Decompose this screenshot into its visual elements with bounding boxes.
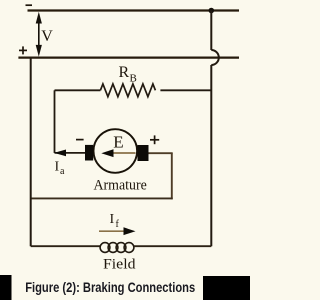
wire hop over positive rail [211, 50, 219, 65]
current arrow I_a head [54, 150, 66, 157]
armature circle [94, 129, 138, 173]
label plus (supply positive) [19, 46, 27, 54]
emf arrow head [101, 149, 113, 157]
svg-text:Armature: Armature [94, 177, 148, 193]
current arrow I_f head [124, 227, 136, 235]
wire bottom left segment to field [31, 245, 101, 247]
label minus (supply negative) [26, 4, 33, 6]
junction dot on negative rail [209, 8, 215, 14]
svg-text:R: R [119, 64, 130, 81]
field coil loop 4 [124, 243, 134, 253]
svg-text:E: E [113, 132, 123, 151]
wire R_B branch right segment [160, 89, 211, 91]
svg-text:V: V [41, 28, 53, 45]
caption black box right [203, 276, 250, 300]
svg-text:a: a [60, 166, 65, 177]
armature minus polarity [76, 139, 84, 141]
field coil loop 2 [108, 243, 118, 253]
positive supply rail [18, 56, 239, 58]
left brush [85, 145, 93, 161]
svg-text:Figure (2): Braking Connection: Figure (2): Braking Connections [25, 280, 195, 295]
armature plus polarity [150, 135, 159, 144]
caption black box left [0, 275, 12, 300]
wire R_B branch left segment [55, 89, 101, 91]
svg-text:I: I [110, 212, 115, 227]
field coil loop 1 [100, 243, 110, 253]
wire bottom of armature loop [31, 197, 173, 199]
wire armature left horizontal [55, 152, 86, 154]
wire bottom right segment from field [134, 245, 212, 247]
emf arrow shaft [110, 152, 136, 154]
right brush [138, 145, 149, 161]
svg-text:B: B [130, 73, 137, 85]
wire inner right vertical [171, 153, 173, 199]
wire outer left vertical [30, 58, 32, 247]
field coil loop 3 [116, 243, 126, 253]
svg-text:I: I [55, 160, 60, 175]
voltage arrow V (double headed) [36, 12, 42, 57]
svg-text:Field: Field [103, 257, 136, 273]
wire right vertical from hop to bottom corner [210, 65, 212, 246]
current arrow I_f shaft [99, 230, 126, 232]
negative supply rail [28, 9, 240, 11]
wire from R_B corner down to armature left wire [54, 90, 56, 153]
wire from junction down to hop [210, 11, 212, 51]
wire from + brush to right corner [149, 152, 173, 154]
resistor R_B zigzag [100, 84, 155, 97]
